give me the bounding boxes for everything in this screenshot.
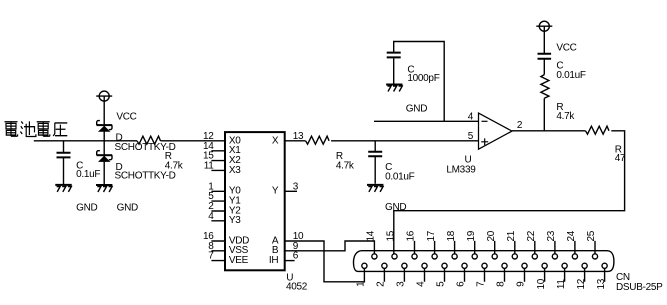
svg-text:5: 5 xyxy=(436,281,447,287)
svg-text:6: 6 xyxy=(456,281,467,287)
svg-text:47: 47 xyxy=(615,153,626,164)
svg-text:4.7k: 4.7k xyxy=(336,160,355,171)
svg-text:X: X xyxy=(272,135,279,146)
svg-text:GND: GND xyxy=(406,104,427,115)
svg-text:13: 13 xyxy=(596,278,607,289)
svg-text:X3: X3 xyxy=(229,165,241,176)
svg-text:11: 11 xyxy=(556,279,567,290)
svg-text:2: 2 xyxy=(517,120,523,131)
svg-text:25: 25 xyxy=(586,230,597,241)
svg-text:Y: Y xyxy=(272,186,279,197)
svg-text:DSUB-25P: DSUB-25P xyxy=(616,282,663,293)
svg-text:GND: GND xyxy=(117,202,138,213)
svg-text:LM339: LM339 xyxy=(446,164,476,175)
svg-text:13: 13 xyxy=(293,131,304,142)
svg-text:10: 10 xyxy=(536,278,547,289)
svg-text:7: 7 xyxy=(476,281,487,287)
svg-text:4.7k: 4.7k xyxy=(556,111,575,122)
svg-text:VCC: VCC xyxy=(116,111,136,122)
svg-text:23: 23 xyxy=(546,230,557,241)
svg-text:Y3: Y3 xyxy=(229,215,241,226)
svg-text:VCC: VCC xyxy=(556,43,576,54)
svg-text:22: 22 xyxy=(526,230,537,241)
svg-text:0.01uF: 0.01uF xyxy=(385,172,415,183)
svg-text:20: 20 xyxy=(486,230,497,241)
svg-text:12: 12 xyxy=(576,278,587,289)
svg-text:9: 9 xyxy=(516,281,527,287)
svg-text:GND: GND xyxy=(76,202,97,213)
svg-text:17: 17 xyxy=(426,230,437,241)
svg-text:4: 4 xyxy=(208,211,214,222)
svg-text:3: 3 xyxy=(396,281,407,287)
svg-text:2: 2 xyxy=(376,281,387,287)
svg-text:1: 1 xyxy=(356,281,367,287)
svg-text:14: 14 xyxy=(366,230,377,241)
svg-text:5: 5 xyxy=(468,131,474,142)
svg-text:IH: IH xyxy=(269,255,278,266)
svg-text:19: 19 xyxy=(466,230,477,241)
svg-text:0.01uF: 0.01uF xyxy=(556,70,586,81)
svg-text:3: 3 xyxy=(293,181,299,192)
svg-text:SCHOTTKY-D: SCHOTTKY-D xyxy=(115,170,176,181)
svg-text:11: 11 xyxy=(204,160,215,171)
svg-text:1000pF: 1000pF xyxy=(407,73,439,84)
svg-text:GND: GND xyxy=(385,202,406,213)
svg-text:4: 4 xyxy=(416,281,427,287)
svg-text:0.1uF: 0.1uF xyxy=(76,169,100,180)
svg-text:24: 24 xyxy=(566,230,577,241)
svg-text:7: 7 xyxy=(208,251,214,262)
svg-text:16: 16 xyxy=(406,230,417,241)
svg-text:6: 6 xyxy=(293,251,299,262)
svg-text:4: 4 xyxy=(468,111,474,122)
svg-text:8: 8 xyxy=(496,281,507,287)
svg-text:18: 18 xyxy=(446,230,457,241)
svg-text:15: 15 xyxy=(386,230,397,241)
svg-text:21: 21 xyxy=(506,230,517,241)
svg-text:SCHOTTKY-D: SCHOTTKY-D xyxy=(115,142,176,153)
svg-text:VEE: VEE xyxy=(229,255,249,266)
svg-text:4052: 4052 xyxy=(286,282,308,293)
